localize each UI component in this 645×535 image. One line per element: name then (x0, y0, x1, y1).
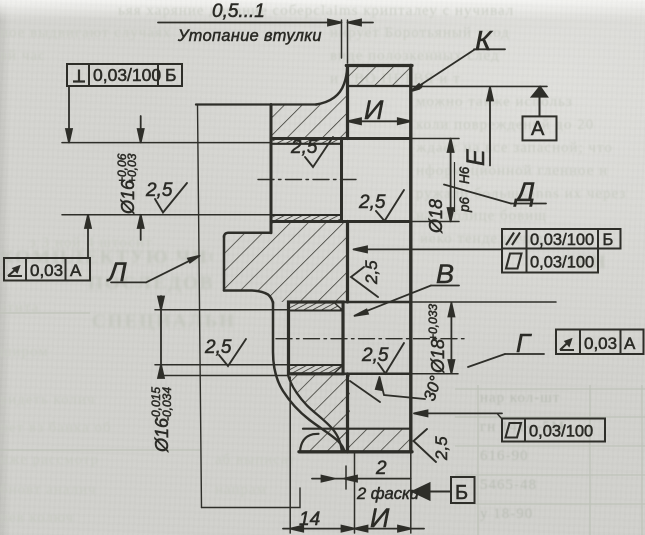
ext line bore1 top, to left (62, 142, 271, 144)
frame slope 0,03 A (left) (4, 258, 90, 281)
upper hole top edge (O18) (271, 137, 411, 140)
parallelism frame leader with arrow (354, 248, 503, 250)
web outer curve down to foot (273, 302, 344, 452)
frame parallelism 0,03/100 B (right) (502, 229, 621, 249)
svg-text:+0,033: +0,033 (426, 304, 440, 341)
roughness mark in upper hole (376, 190, 404, 221)
background outline bottom (202, 488, 301, 508)
leader V with arrow (355, 286, 432, 316)
hub top surface (196, 103, 317, 105)
flange top edge (346, 64, 412, 67)
dim O16+0.06 line upper arrow (140, 116, 142, 143)
roughness mark upper-left (155, 183, 187, 213)
lower hole top edge in wall (343, 301, 411, 304)
svg-text:0,03/100: 0,03/100 (530, 254, 594, 272)
svg-text:А: А (624, 334, 636, 353)
frame perpendicularity 0,03/100 B (67, 64, 182, 86)
dense hatch: bushing1 bottom wall (271, 215, 342, 222)
roughness mark above bushing1 (305, 137, 333, 167)
flange bottom strip top line (303, 428, 411, 430)
dim text O16+0.06+0.03 rotated (115, 153, 139, 215)
flange right face (409, 66, 412, 453)
svg-text:2,5: 2,5 (362, 260, 381, 285)
svg-text:2: 2 (375, 458, 387, 479)
svg-text:0,03: 0,03 (30, 261, 63, 280)
hatch: wedge under lower bushing (288, 374, 343, 450)
svg-text:Д: Д (513, 177, 535, 207)
upper hole bottom edge (O18) (271, 220, 411, 223)
roughness mark rotated on wall face (351, 267, 378, 297)
leader arrow of slope frame (left) (87, 215, 89, 258)
svg-text:0,03/100: 0,03/100 (529, 423, 593, 441)
hatch: flange bottom strip (300, 429, 411, 452)
hatch: upper boss with fillet zone (271, 66, 410, 139)
svg-text:Утопание втулки: Утопание втулки (177, 27, 322, 45)
ext vertical bushing1 right end, up (341, 20, 343, 58)
dim text O18+0.033 rotated (426, 304, 448, 374)
flange bottom edge (299, 450, 412, 453)
flatness frame leader with arrow (414, 412, 502, 414)
svg-text:К: К (475, 25, 493, 56)
frame long.section profile 0,03/100 (right) (502, 249, 598, 273)
hatch: middle web mass (224, 222, 348, 303)
dim O16-0.015 line with arrows (160, 296, 162, 376)
datum A flag (532, 87, 547, 97)
svg-text:Ø18: Ø18 (426, 199, 446, 234)
svg-text:14: 14 (299, 509, 320, 530)
L underline (111, 281, 146, 283)
dim 2 chamfer line and arrows (312, 478, 411, 480)
K underline (474, 48, 505, 50)
dense hatch: bushing2 top wall (289, 302, 344, 311)
dim text O16-0.015-0.034 rotated (149, 387, 174, 453)
lower bushing bore bottom edge (289, 364, 344, 366)
ext line hole2 top, to right (411, 301, 556, 303)
svg-text:Ø18: Ø18 (428, 339, 448, 374)
inner curve under lower bushing (288, 376, 342, 452)
svg-text:2,5: 2,5 (145, 180, 173, 201)
svg-text:2,5: 2,5 (361, 345, 389, 366)
hub-to-flange fillet (316, 66, 347, 105)
dim I top line with arrows (348, 120, 411, 122)
ext vertical chamfer tick (345, 466, 347, 489)
dense hatch: bushing1 top wall (271, 139, 342, 145)
ext vertical flange right face, down (410, 452, 412, 533)
ext line bore1 bottom, to left (62, 214, 271, 216)
V underline (431, 285, 459, 287)
ext line bore2 bottom, to left (155, 364, 289, 366)
G underline (505, 353, 544, 355)
chamfer edge upper right of bushing2 (334, 303, 343, 311)
roughness mark lower-left (219, 339, 246, 366)
hatch: flange upper band (348, 66, 411, 87)
dense hatch: bushing2 bottom wall (289, 365, 344, 374)
svg-text:Г: Г (516, 328, 532, 358)
extra diagonal near 30deg (350, 381, 380, 402)
svg-text:2,5: 2,5 (358, 192, 386, 213)
bushing1 bore top edge (271, 143, 342, 145)
svg-text:В: В (436, 259, 454, 289)
dim 14 and I bottom line (283, 528, 424, 530)
centre line upper bore (258, 179, 356, 181)
svg-text:-0,034: -0,034 (160, 387, 174, 421)
dim O18 H6p6 line with arrows (450, 139, 452, 222)
bushing1 right end face (340, 139, 343, 222)
svg-text:0,03: 0,03 (584, 334, 617, 353)
svg-text:Ø16: Ø16 (152, 417, 172, 453)
ext vertical bushing2 left end, down (289, 377, 291, 533)
svg-text:0,03/100: 0,03/100 (93, 65, 161, 85)
dim E vertical line with up arrow (489, 87, 491, 166)
ext line hole1 top, to right (411, 138, 459, 140)
boss step ledge (224, 233, 271, 237)
ext line hole1 bottom, to right (411, 221, 459, 223)
lower boss step (224, 291, 273, 304)
frame flatness-profile 0,03/100 (bottom right) (502, 419, 605, 442)
lower boss left face (223, 236, 226, 291)
svg-text:И: И (370, 503, 390, 533)
roughness mark rotated on right face (414, 429, 437, 462)
svg-text:Б: Б (165, 65, 176, 85)
dim O16+0.06 line lower arrow (140, 215, 142, 240)
svg-text:Е: Е (462, 149, 490, 166)
D underline (511, 203, 546, 205)
leader G (468, 354, 505, 367)
leader 30deg with arrow (380, 377, 426, 399)
bottom-left fillet arc of flange foot (300, 434, 319, 452)
svg-text:2 фаски: 2 фаски (356, 485, 419, 503)
svg-text:Н6: Н6 (457, 166, 472, 184)
flange hatch window line (348, 85, 411, 87)
hatch: column right of lower bushing (342, 374, 351, 452)
svg-text:А: А (70, 261, 82, 280)
chamfer notch fills (334, 304, 342, 310)
leader L with arrow (146, 256, 200, 283)
datum B flag (413, 484, 430, 500)
svg-text:И: И (364, 95, 384, 125)
ext line bore2 top, to left (155, 309, 289, 311)
roughness mark lower hole (378, 343, 404, 374)
dim 0,5...1 right arrow (348, 22, 374, 24)
svg-text:2,5: 2,5 (204, 337, 232, 358)
svg-text:0,5...1: 0,5...1 (212, 1, 265, 22)
svg-text:0,03/100: 0,03/100 (530, 231, 594, 249)
lower bushing bore top edge (289, 309, 344, 311)
svg-text:+0,03: +0,03 (125, 153, 139, 184)
ext vertical flange left face, up (347, 20, 349, 63)
frame slope 0,03 A (lower right) (556, 330, 644, 355)
ext line hole2 bottom, to right (411, 373, 458, 375)
ext line surface A level, to right (411, 85, 547, 87)
bleed-through text layer (118, 3, 558, 20)
centre line lower bore (276, 338, 468, 340)
svg-text:30°: 30° (421, 374, 446, 404)
svg-text:Б: Б (603, 231, 614, 249)
flange left face (346, 66, 349, 453)
leader D (444, 185, 511, 204)
svg-text:2,5: 2,5 (290, 137, 318, 158)
background outline left vertical (198, 105, 202, 508)
lower bushing outer box (289, 302, 344, 374)
lower hole bottom edge in wall (343, 373, 411, 376)
svg-text:2,5: 2,5 (432, 436, 451, 461)
ext line bushing2 bottom, to left (161, 375, 289, 377)
dim 0,5...1 line left part with arrow (158, 22, 342, 24)
leader K with arrow (411, 49, 475, 91)
bushing1 left end face / boss face (270, 105, 273, 233)
svg-text:р6: р6 (457, 196, 472, 213)
leader arrow of perpendicularity frame (68, 86, 70, 143)
svg-text:Б: Б (455, 482, 468, 504)
svg-text:Л: Л (106, 257, 127, 287)
ext vertical flange left face, down (354, 452, 356, 533)
bushing1 bore bottom edge (271, 214, 342, 216)
chamfer edge lower right of bushing2 (334, 365, 343, 373)
svg-text:А: А (531, 118, 545, 140)
dim O18+0.033 line with arrows (450, 303, 452, 374)
